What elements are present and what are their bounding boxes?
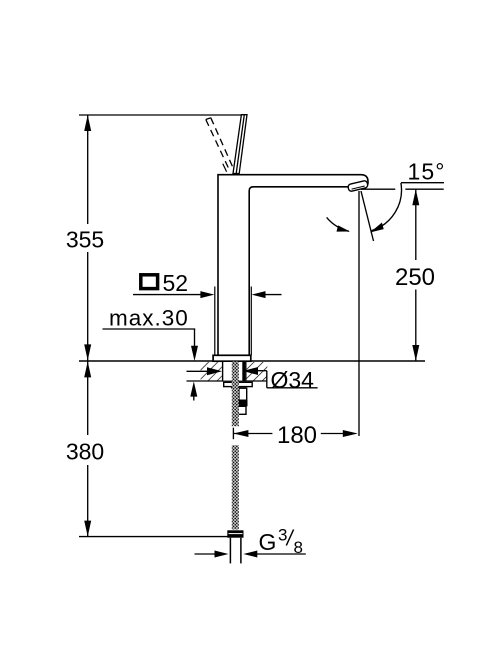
label square 52 symbol bbox=[141, 275, 158, 289]
dia 34 right arrow and leader bbox=[243, 367, 258, 375]
arc small left sweep bbox=[327, 217, 349, 231]
max.30 drop line and down arrow bbox=[194, 329, 196, 348]
shank black bar bbox=[242, 362, 245, 381]
dia 34 left arrow and leader bbox=[187, 370, 209, 372]
extension line from spout outlet for 250 bbox=[361, 188, 395, 190]
bottom reference line at hose end bbox=[79, 536, 228, 538]
arrow down 380 bottom bbox=[84, 521, 91, 537]
svg-text:max.30: max.30 bbox=[109, 305, 189, 330]
arrowhead on large arc bbox=[370, 223, 384, 233]
flange collar line bbox=[231, 387, 246, 389]
extension line 52 right bbox=[250, 287, 252, 356]
max.30 up arrow below counter bbox=[190, 381, 197, 396]
dim 52 right arrow bbox=[252, 291, 266, 298]
G 3/8 leader left arrow bbox=[195, 553, 216, 555]
connection tube bbox=[229, 538, 231, 564]
arrowhead on small arc bbox=[337, 225, 350, 231]
arrow up 250 top bbox=[412, 189, 419, 205]
svg-text:180: 180 bbox=[277, 422, 317, 449]
flexible hose lower segment bbox=[232, 445, 239, 529]
hose end connector bbox=[227, 530, 243, 537]
shank through counter bbox=[222, 362, 246, 381]
svg-text:G: G bbox=[259, 529, 277, 555]
counter cross-section hatch left bbox=[201, 362, 223, 381]
dimension 250 vertical line bbox=[415, 189, 417, 260]
arrow right 180 bbox=[343, 430, 358, 437]
wire top extension line from lever tip bbox=[79, 114, 246, 116]
svg-text:380: 380 bbox=[66, 439, 104, 465]
dimension 355 vertical line bbox=[87, 115, 89, 224]
flexible hose upper segment bbox=[232, 362, 239, 427]
socket lower bbox=[238, 406, 246, 414]
G 3/8 leader right arrow bbox=[243, 551, 257, 558]
counter bottom line bbox=[187, 380, 268, 382]
socket upper bbox=[239, 388, 247, 400]
counter top surface line bbox=[79, 360, 425, 362]
svg-text:3: 3 bbox=[278, 526, 287, 545]
dashed lever (alternate position) bbox=[206, 120, 230, 171]
dimension 380 vertical line bbox=[87, 361, 89, 435]
base plate bbox=[213, 355, 251, 361]
max.30 underline bbox=[103, 328, 196, 330]
arrow up 380 top bbox=[84, 361, 91, 377]
arc large 15deg sweep bbox=[372, 183, 402, 231]
dim 52 leader left with arrow bbox=[133, 294, 203, 296]
svg-text:250: 250 bbox=[395, 264, 435, 291]
svg-text:355: 355 bbox=[66, 226, 104, 252]
solid lever bbox=[233, 115, 247, 174]
svg-text:52: 52 bbox=[163, 270, 189, 296]
arrow up 355 top bbox=[84, 115, 91, 131]
arrow left 180 bbox=[233, 430, 248, 437]
extension line 52 left bbox=[214, 287, 216, 356]
dimension 180 line bbox=[233, 433, 272, 435]
counter cross-section hatch right bbox=[245, 362, 267, 381]
svg-text:Ø34: Ø34 bbox=[271, 367, 315, 393]
spout axis tilted 15 deg line bbox=[361, 191, 374, 241]
svg-text:15°: 15° bbox=[408, 159, 446, 185]
arrow down 355 bottom bbox=[84, 344, 91, 360]
extension tick at hose center bbox=[232, 428, 234, 440]
leader line under 15 degrees bbox=[401, 182, 444, 184]
socket black band bbox=[236, 400, 248, 406]
faucet body outline bbox=[218, 175, 368, 356]
aerator spout tip tilted bbox=[348, 180, 369, 192]
arrow down 250 bottom bbox=[412, 345, 419, 361]
spout axis vertical line bbox=[358, 191, 360, 436]
mounting flange washer bbox=[224, 382, 253, 386]
svg-text:8: 8 bbox=[294, 538, 303, 557]
